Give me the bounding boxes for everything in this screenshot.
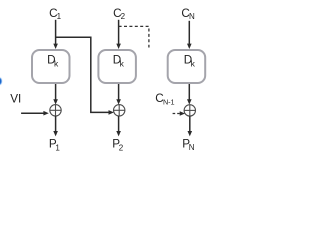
wire block2 to XOR2: [116, 84, 121, 105]
wire CN down-arrow into block 3: [187, 21, 192, 49]
wire XOR3 to PN: [188, 116, 193, 136]
block Dk 2: [98, 50, 135, 83]
dashed wire CN-1 arrow into XOR3: [173, 111, 186, 116]
svg-text:N: N: [189, 12, 195, 21]
wire XOR2 to P2: [116, 116, 121, 136]
wire block3 to XOR3: [187, 84, 192, 105]
XOR node 2: [114, 105, 125, 116]
label CN-1: [155, 92, 174, 107]
arrowhead into XOR 2: [109, 110, 114, 115]
svg-text:N: N: [189, 143, 195, 152]
label C1: [49, 7, 62, 21]
block Dk 1: [32, 50, 70, 83]
label CN: [181, 7, 195, 21]
svg-text:1: 1: [55, 143, 60, 152]
wire block1 to XOR1: [53, 84, 58, 105]
wire C1 down-arrow into block 1: [53, 20, 58, 49]
svg-text:k: k: [191, 58, 196, 68]
XOR node 1: [50, 105, 61, 116]
svg-text:N-1: N-1: [163, 97, 174, 106]
XOR node 3: [184, 105, 195, 116]
block Dk 3: [168, 50, 206, 83]
svg-text:2: 2: [121, 12, 126, 21]
blue bullet fragment at left edge: [0, 78, 2, 85]
label PN: [182, 138, 195, 153]
svg-text:VI: VI: [10, 93, 21, 106]
label C2: [113, 7, 126, 21]
svg-text:1: 1: [57, 12, 62, 21]
wire XOR1 to P1: [53, 116, 58, 136]
wire C1 branch to XOR 2: [56, 37, 110, 112]
label P1: [49, 138, 61, 153]
dashed wire C2 branch (continues to next stage): [119, 26, 149, 47]
wire C2 down-arrow into block 2: [116, 20, 121, 49]
wire VI arrow into XOR1: [21, 111, 49, 116]
svg-text:2: 2: [119, 143, 124, 152]
label P2: [112, 138, 124, 153]
svg-text:k: k: [120, 58, 125, 68]
